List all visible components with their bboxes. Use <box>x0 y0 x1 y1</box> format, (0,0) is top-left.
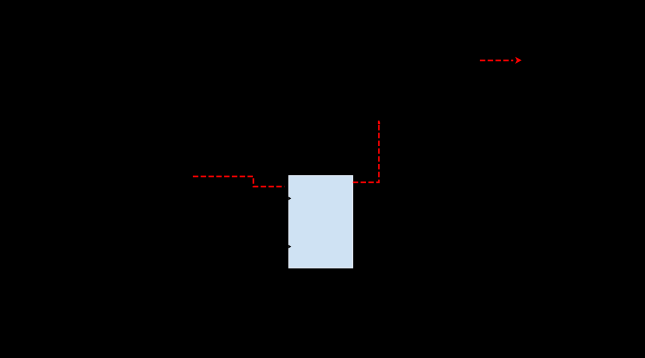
wire: red dashed return from box right edge going up <box>353 121 379 183</box>
wire: red dashed message from left with step down into box <box>193 176 285 186</box>
wire: red dashed arrow at top right <box>480 59 513 61</box>
tick: black arrowhead tip on box left edge (upper) <box>288 197 291 201</box>
arrowhead: filled red concave-back arrowhead of top-right arrow <box>515 57 522 64</box>
activation box (blue rectangle) <box>289 176 353 268</box>
arrow hook at top of vertical red dashed wire <box>378 121 380 125</box>
tick: black arrowhead tip on box left edge (lower) <box>288 245 291 249</box>
